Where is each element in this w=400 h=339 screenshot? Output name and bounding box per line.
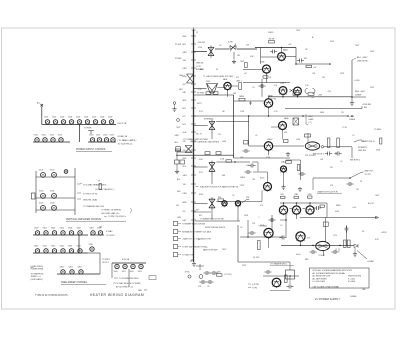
bus top terminal (192, 28, 196, 31)
svg-text:V203: V203 (60, 117, 64, 119)
svg-text:1.5M: 1.5M (220, 158, 225, 160)
cap lv b (309, 250, 316, 254)
stub tube203b down (237, 206, 239, 221)
vert x238 low (237, 225, 239, 262)
svg-text:R ADJUST FOR 40V P-P SAWTOOTH: R ADJUST FOR 40V P-P SAWTOOTH AT V8 (200, 185, 238, 188)
svg-text:( TO HEATER WDG ): ( TO HEATER WDG ) (270, 262, 288, 265)
tube V207 (264, 183, 272, 192)
svg-text:SAWTOOTH SWP: SAWTOOTH SWP (203, 249, 218, 252)
res lv1 (344, 240, 347, 248)
tube V212 6AQ5 (264, 228, 273, 239)
svg-text:REG +350V: REG +350V (355, 91, 366, 93)
svg-text:.02: .02 (244, 73, 246, 75)
osc vert x290 (289, 276, 291, 284)
bus tick 22 (191, 219, 196, 221)
bus tick 11 (191, 123, 196, 125)
svg-text:( SEE NOTE ): ( SEE NOTE ) (357, 61, 369, 63)
wire v204 right (218, 87, 224, 89)
svg-text:.01: .01 (352, 135, 354, 137)
chain2 tube A1 (44, 231, 48, 235)
stub V201b down (266, 73, 268, 82)
bracket tube G1 (123, 264, 127, 268)
svg-text:( SAWTOOTH 120V P-P ): ( SAWTOOTH 120V P-P ) (317, 190, 339, 193)
wire v212 down (268, 238, 270, 248)
wire y116 (194, 115, 349, 117)
svg-text:FREE SWEEP CHANNEL: FREE SWEEP CHANNEL (61, 281, 88, 284)
pot X202 (209, 119, 215, 131)
vert x346.5 top (346, 226, 348, 245)
wire X203 out (216, 161, 250, 163)
tube V210 (292, 206, 300, 216)
chain2 tube B2 (52, 249, 56, 253)
box 01 (263, 76, 268, 78)
tube V208b (280, 166, 286, 173)
freesweep rail (57, 273, 100, 275)
tube small y203a (222, 201, 228, 208)
svg-text:TO TERM 5 OF SWP BD: TO TERM 5 OF SWP BD (101, 210, 122, 212)
connector J1 left edge (32, 193, 36, 199)
terminal top small (64, 170, 68, 174)
stub trio2 up (296, 203, 298, 206)
svg-text:V402: V402 (78, 267, 82, 269)
bus tick 2 (191, 51, 196, 53)
junction tv1 (281, 47, 283, 49)
stub V204 down (227, 90, 229, 97)
svg-text:TO PIN 7 OF V6: TO PIN 7 OF V6 (83, 193, 97, 195)
svg-text:5-PAGE: 5-PAGE (350, 295, 357, 298)
freesweep tube F2 (79, 270, 83, 274)
bus tick 20 (191, 201, 196, 203)
bus tick 17 (191, 174, 196, 176)
svg-text:TO CRT CATHODE LOAD TERM 8: TO CRT CATHODE LOAD TERM 8 (190, 141, 219, 144)
svg-text:.001: .001 (246, 165, 249, 167)
svg-text:V316: V316 (89, 244, 93, 246)
heater tube row1 V3 (61, 120, 65, 124)
svg-text:1MEG: 1MEG (240, 177, 246, 179)
svg-text:V220: V220 (89, 135, 93, 137)
svg-text:INTENSITY: INTENSITY (204, 118, 214, 120)
tube V203 funnel (207, 84, 218, 94)
vert-amp frame left (35, 171, 37, 213)
svg-text:6.3V 2A: 6.3V 2A (122, 258, 130, 261)
svg-text:1MEG: 1MEG (361, 141, 367, 143)
svg-text:TO CHASSIS GND LUG: TO CHASSIS GND LUG (83, 205, 105, 208)
svg-text:TO SWEEP BD.: TO SWEEP BD. (31, 273, 45, 275)
wire bus-R201 (194, 51, 208, 53)
svg-text:L TO SWEEP SWITCH TERM: L TO SWEEP SWITCH TERM (183, 139, 208, 141)
svg-text:.02: .02 (252, 87, 254, 89)
svg-text:TYPE 53 KLYSTRON MOUNTS: TYPE 53 KLYSTRON MOUNTS (35, 295, 68, 297)
pot R201 bowtie (208, 45, 214, 57)
heater tube row1 V2 (53, 120, 57, 124)
svg-text:12BH7: 12BH7 (267, 139, 273, 141)
trio boxes (281, 196, 286, 198)
wire diag 6.3 (357, 251, 367, 260)
osc wire below (270, 290, 290, 292)
svg-text:V503: V503 (138, 271, 142, 273)
svg-text:.02: .02 (280, 225, 282, 227)
notes box (310, 268, 370, 288)
vres gun a (327, 138, 330, 148)
wire y155 (176, 154, 234, 156)
callout row1 (173, 230, 178, 234)
cap C202 (297, 59, 304, 63)
wire y262 mid (238, 261, 290, 263)
svg-text:6.3VAC FROM: 6.3VAC FROM (31, 265, 44, 268)
svg-text:+140: +140 (352, 207, 356, 209)
svg-text:4.5K 2W: 4.5K 2W (198, 42, 206, 44)
svg-text:SEE NOTE 2: SEE NOTE 2 (350, 160, 360, 162)
lv xfmr ellipse (316, 241, 330, 250)
svg-text:V400: V400 (60, 267, 64, 269)
tube V206 (264, 142, 272, 152)
bus tick 18 (191, 183, 196, 185)
junction 116d (351, 115, 353, 117)
svg-text:12B4: 12B4 (294, 194, 298, 196)
stub trio2 down (296, 214, 298, 219)
small parts res (217, 274, 223, 276)
svg-text:V204: V204 (68, 117, 72, 119)
svg-text:V303: V303 (60, 228, 64, 230)
callout grn-yel (77, 198, 81, 200)
chain2 tube A4 (69, 231, 73, 235)
heater tube row2 V23 (111, 138, 115, 142)
pot X203 (209, 161, 215, 174)
vert x313 (312, 178, 314, 190)
vert x248 (247, 220, 249, 237)
tube V201 (278, 53, 286, 62)
osc label b (248, 287, 251, 289)
wire bus-X202 (194, 125, 208, 127)
svg-text:LIMIT R44: LIMIT R44 (358, 150, 366, 152)
svg-text:L+350: L+350 (354, 80, 359, 82)
res r210 (218, 199, 224, 201)
svg-text:L ADJ R DRIVE LEVEL R25 TEXT: L ADJ R DRIVE LEVEL R25 TEXT (206, 75, 234, 78)
svg-text:.02: .02 (340, 161, 342, 163)
heater tube row2 V10 (35, 138, 39, 142)
osc cluster cap (264, 270, 271, 274)
chain2 tube A5 (78, 231, 82, 235)
power plug P1 (41, 104, 44, 110)
svg-text:V105: V105 (39, 203, 43, 205)
wire X202 right (216, 121, 249, 123)
svg-text:12AT7: 12AT7 (280, 82, 286, 85)
cap C207 (244, 170, 251, 174)
xfmr T201 winding (187, 74, 194, 83)
svg-text:TO V9 P4: TO V9 P4 (106, 235, 115, 237)
svg-text:TO W SWEEPER WDG: TO W SWEEPER WDG (119, 278, 139, 280)
svg-text:SEE NOTE 3: SEE NOTE 3 (313, 154, 324, 156)
svg-text:V208: V208 (100, 117, 104, 119)
annotation drive level (203, 75, 205, 77)
svg-text:.01: .01 (219, 45, 221, 47)
svg-text:P2 BLK: P2 BLK (175, 44, 182, 46)
svg-text:( 2 ): ( 2 ) (309, 122, 313, 124)
svg-text:6AH6: 6AH6 (284, 117, 289, 120)
callout pin7 (77, 192, 81, 194)
grid drop (233, 52, 235, 59)
heater tube row2 V20 (90, 138, 94, 142)
wire y212 (194, 211, 212, 213)
stub trio1 up (283, 203, 285, 206)
svg-text:V209: V209 (108, 117, 112, 119)
wire y147 right (273, 145, 304, 147)
svg-text:6CL6: 6CL6 (260, 177, 264, 179)
svg-text:( TO V12 ): ( TO V12 ) (224, 274, 232, 276)
cap lv c (331, 250, 338, 254)
junction lv2 (312, 245, 314, 247)
callout row2 (173, 237, 178, 241)
bus tick 5 (191, 75, 196, 77)
svg-text:( TO 6.3VAC WDG OF LV XFMR ): ( TO 6.3VAC WDG OF LV XFMR ) (113, 282, 141, 285)
heater tube row1 V7 (93, 120, 97, 124)
gnd sweep b (298, 187, 302, 191)
cap c203 (258, 84, 265, 88)
svg-text:V205: V205 (76, 117, 80, 119)
bracket tube G2 (131, 264, 135, 268)
svg-text:5Y3-GT: 5Y3-GT (319, 255, 326, 257)
osc cluster tube V214 (272, 278, 281, 288)
osc top tee (199, 264, 201, 270)
svg-text:TO DEFL: TO DEFL (374, 129, 381, 131)
wire y160 (286, 159, 301, 161)
annotation long (196, 186, 199, 188)
chain2 tube B3 (61, 249, 65, 253)
svg-text:V222: V222 (103, 135, 107, 137)
svg-text:OF V14: OF V14 (102, 262, 109, 264)
svg-text:LAMP: LAMP (309, 118, 315, 121)
svg-text:POWER SUPPLY CHASSIS: POWER SUPPLY CHASSIS (76, 148, 106, 151)
heater tube row1 V8 (101, 120, 105, 124)
svg-text:R40: R40 (364, 107, 367, 109)
ground lv (354, 248, 356, 252)
svg-text:V307: V307 (90, 228, 94, 230)
vert-amp tube V2A (52, 173, 57, 178)
tube V201b (263, 65, 271, 74)
margin terminal1 (177, 119, 180, 122)
callout extra3 (104, 215, 107, 217)
gun top vert (307, 133, 309, 142)
bus tick 3 (191, 59, 196, 61)
svg-text:TO PIN 2: TO PIN 2 (102, 259, 110, 261)
cap c208 (298, 172, 305, 176)
junction y97a (282, 96, 284, 98)
svg-text:J2: J2 (196, 32, 198, 34)
osc vres (285, 275, 288, 283)
label to crt grid (354, 140, 362, 142)
freesweep tube F1 (70, 270, 74, 274)
svg-text:K = 1000: K = 1000 (348, 278, 355, 280)
heater tube row2 V12 (51, 138, 55, 142)
wire v207 grid (250, 201, 262, 203)
diode D201 (354, 244, 358, 248)
svg-text:POWER XFMR: POWER XFMR (31, 269, 44, 271)
svg-text:LINE VOLTAGE 117VAC NOMINAL: LINE VOLTAGE 117VAC NOMINAL (313, 285, 340, 288)
tp comp (99, 184, 101, 190)
svg-text:VERTICAL AMPLIFIER CHASSIS: VERTICAL AMPLIFIER CHASSIS (66, 218, 101, 221)
svg-text:250: 250 (144, 289, 147, 291)
marks under rail (336, 249, 339, 252)
svg-text:G-W: G-W (183, 132, 187, 134)
svg-text:6.3VAC: 6.3VAC (368, 260, 375, 263)
margin box pair (175, 160, 180, 164)
junction lv3 (339, 245, 341, 247)
vert-amp tube V1A (41, 173, 46, 178)
svg-text:TO PWR: TO PWR (84, 128, 92, 130)
svg-text:V501: V501 (122, 271, 126, 273)
wire X204 out (216, 201, 250, 203)
ground hv (351, 97, 353, 101)
stub v202b (297, 95, 299, 97)
junction 116b (268, 115, 270, 117)
svg-text:+325V: +325V (381, 232, 387, 234)
svg-text:.05: .05 (240, 227, 242, 229)
svg-text:1M: 1M (237, 55, 240, 57)
svg-text:NOTE: ALL VOLTAGES MEASURED WI: NOTE: ALL VOLTAGES MEASURED WITH VTVM (313, 269, 353, 272)
bus tick 14 (191, 149, 196, 151)
bus tick 9 (191, 107, 196, 109)
wire bus-X204 (194, 203, 208, 205)
svg-text:HORIZ DISPLAY SW: HORIZ DISPLAY SW (205, 226, 222, 229)
wire v213 stub (300, 241, 302, 245)
boxes y155 (205, 152, 210, 155)
svg-text:ALL CAPS IN MFD: ALL CAPS IN MFD (313, 277, 328, 280)
bracket rail right (112, 262, 146, 264)
svg-text:V502: V502 (130, 271, 134, 273)
bus tick 6 (191, 83, 196, 85)
svg-text:V401: V401 (69, 267, 73, 269)
svg-text:ADJ. +350V: ADJ. +350V (357, 56, 368, 59)
freesweep tube F0 (61, 270, 65, 274)
ground G1 (232, 60, 236, 64)
bus tick 19 (191, 192, 196, 194)
trio marks (290, 208, 306, 210)
svg-text:ALL VOLTAGES TAKEN WITH NO SIG: ALL VOLTAGES TAKEN WITH NO SIGNAL (313, 272, 346, 275)
svg-text:TO EXT CAP BINDING POST: TO EXT CAP BINDING POST (182, 245, 207, 248)
svg-text:GRN: GRN (175, 135, 180, 137)
svg-text:TO 6.3VAC HEATER WDG.: TO 6.3VAC HEATER WDG. (83, 183, 107, 186)
tube V206b (279, 122, 287, 131)
svg-text:TO P4: TO P4 (252, 287, 257, 289)
svg-text:6U8: 6U8 (281, 194, 284, 196)
chain2 tube B5 (78, 249, 82, 253)
junction y97b (297, 96, 299, 98)
svg-text:HEATER WIRING DIAGRAM: HEATER WIRING DIAGRAM (90, 293, 144, 297)
stub X203 down (211, 173, 213, 184)
svg-text:2W: 2W (330, 167, 333, 169)
svg-text:TO V9: TO V9 (342, 127, 347, 129)
stub v202a (282, 94, 284, 96)
wire bus-X203 (194, 166, 208, 168)
svg-text:1MEG: 1MEG (239, 96, 245, 98)
chain2 tube B0 (35, 249, 39, 253)
chain2 railB (33, 252, 88, 254)
heater rail row1 (44, 124, 116, 126)
svg-text:NORMAL IN TO SWEEP OUT JACK: NORMAL IN TO SWEEP OUT JACK (182, 230, 212, 233)
svg-text:P3 RED: P3 RED (175, 58, 182, 60)
svg-text:V300: V300 (34, 228, 38, 230)
cap c210 (248, 231, 255, 235)
wire y108 (285, 108, 362, 110)
tube V202a (279, 87, 287, 96)
wire plug to rail1 (41, 110, 43, 125)
svg-text:( RET ): ( RET ) (236, 81, 242, 83)
wire y82.5 (243, 82, 290, 84)
bracket drop left (111, 263, 113, 278)
svg-text:A PLUG PINS 1 + 10: A PLUG PINS 1 + 10 (116, 286, 133, 289)
wire v207 top (267, 172, 269, 182)
bracket drop mid (128, 269, 130, 287)
wire y69.5 (243, 69, 262, 71)
callout heater wdg (77, 183, 82, 184)
freesweep drop (99, 263, 101, 274)
gun terminal (321, 146, 323, 148)
wire y217 right (300, 217, 377, 219)
margin gnd (176, 164, 178, 170)
svg-text:LV POWER SUPPLY: LV POWER SUPPLY (315, 297, 340, 301)
svg-text:V313: V313 (60, 246, 64, 248)
wire row1-row2 drop (79, 125, 81, 143)
svg-text:470: 470 (260, 205, 263, 207)
svg-text:V308: V308 (97, 228, 101, 230)
heater tube row2 V22 (104, 138, 108, 142)
junction 116a (248, 115, 250, 117)
callout row3 (173, 245, 178, 249)
trio riser (326, 203, 328, 218)
vert x248.7 (248, 116, 250, 146)
pot X204 (209, 197, 215, 210)
res y162 (226, 160, 232, 162)
gnd top sweep (286, 152, 290, 156)
bus tick 0 (191, 35, 196, 37)
svg-text:YEL: YEL (183, 60, 186, 62)
wire y88 (194, 88, 207, 90)
chain2 tube B6 (90, 247, 94, 251)
vert x325.5 top (325, 218, 327, 242)
svg-text:6CB6: 6CB6 (260, 62, 264, 64)
tube V205 (264, 99, 272, 109)
bus tick 8 (191, 99, 196, 101)
bus tick 16 (191, 165, 196, 167)
svg-text:1M 1W: 1M 1W (269, 39, 275, 41)
callout row0 (173, 222, 178, 226)
svg-text:6.3VAC 2A: 6.3VAC 2A (118, 135, 128, 138)
vert-amp tube V3A (41, 194, 46, 199)
cap C206 (248, 164, 255, 168)
svg-text:B+: B+ (312, 37, 314, 39)
svg-text:TERM 3 + 4: TERM 3 + 4 (31, 276, 41, 278)
svg-text:V3: V3 (216, 69, 218, 71)
svg-text:YEL: YEL (176, 205, 179, 207)
chain2 railA (33, 234, 88, 236)
svg-text:1W: 1W (341, 112, 344, 114)
svg-text:.047: .047 (304, 58, 308, 60)
svg-text:6AU6: 6AU6 (223, 78, 227, 81)
junction lv1 (300, 245, 302, 247)
note bracket mid (306, 114, 308, 125)
heater rail row2-right (88, 141, 116, 143)
hv vertical (351, 60, 353, 97)
svg-text:V223: V223 (110, 135, 114, 137)
wire y64 out (296, 63, 330, 65)
margin res (176, 149, 181, 151)
svg-text:ORN: ORN (183, 193, 188, 195)
svg-text:V212: V212 (50, 135, 54, 137)
svg-text:A.C.: A.C. (37, 102, 41, 105)
bracket to pwr xfmr (88, 131, 94, 135)
svg-text:NO PWR: NO PWR (197, 93, 205, 95)
margin terminal sm (173, 102, 176, 105)
